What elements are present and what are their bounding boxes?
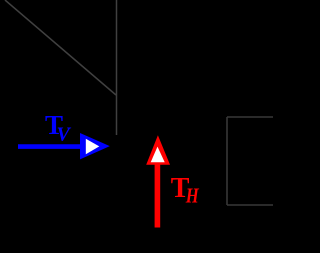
string: diagonal cord from ceiling: [5, 0, 116, 95]
string: vertical cord from ceiling: [116, 0, 118, 135]
vector T_V shaft (blue horizontal arrow): [18, 144, 81, 149]
svg-text:H: H: [185, 184, 199, 208]
svg-text:V: V: [57, 124, 72, 146]
wall/box bottom edge: [227, 204, 273, 206]
wall/box left edge: [226, 117, 228, 205]
vector T_H shaft (red vertical arrow): [155, 163, 161, 228]
vector T_H arrowhead outer: [146, 135, 170, 165]
vector T_V arrowhead outer: [80, 133, 110, 159]
wall/box top edge: [227, 116, 273, 118]
vector T_V arrowhead inner white: [86, 139, 100, 155]
vector T_H arrowhead inner white: [151, 147, 165, 163]
